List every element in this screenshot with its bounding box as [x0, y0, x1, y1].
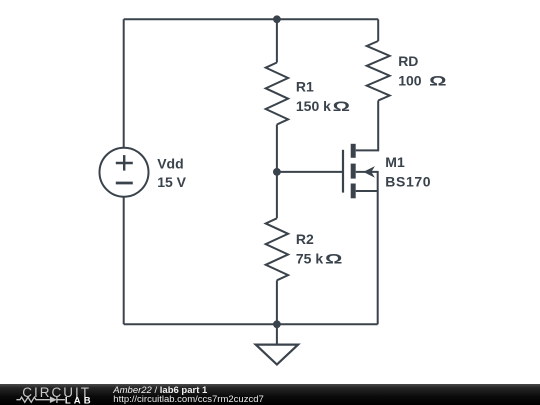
transistor M1 — [343, 144, 378, 199]
svg-text:150 k: 150 k — [296, 98, 331, 114]
svg-text:100: 100 — [398, 72, 422, 88]
label Vdd 15 V — [157, 156, 186, 190]
resistor R1 — [266, 63, 288, 125]
wire left rail upper — [123, 19, 125, 147]
wire middle column between R1 and R2 — [276, 125, 278, 219]
channel bar body — [351, 164, 356, 179]
node bottom junction — [273, 320, 281, 328]
logo diode bar and lead — [57, 396, 65, 403]
logo diode triangle — [50, 396, 57, 403]
wire source down to bottom rail — [377, 191, 379, 324]
svg-text:Vdd: Vdd — [157, 156, 183, 172]
svg-text:RD: RD — [398, 53, 418, 69]
footer bar — [0, 384, 540, 405]
label R1 150 kOhm — [296, 78, 350, 114]
voltage source Vdd — [100, 148, 149, 197]
svg-text:BS170: BS170 — [385, 173, 431, 189]
svg-text:R1: R1 — [296, 78, 314, 94]
wire left rail lower — [123, 197, 125, 325]
resistor RD — [367, 41, 390, 101]
node gate junction — [273, 168, 281, 176]
wire right rail above RD — [377, 19, 379, 41]
wire top rail — [124, 18, 379, 20]
body lead with arrow — [356, 172, 378, 191]
label RD 100 Ohm — [398, 53, 446, 88]
svg-text:75 k: 75 k — [296, 250, 323, 266]
channel bar source — [351, 184, 356, 199]
node top junction — [273, 15, 281, 23]
svg-text:R2: R2 — [296, 231, 314, 247]
svg-text:LAB: LAB — [65, 396, 94, 405]
gate line — [342, 150, 344, 193]
resistor R2 — [266, 218, 288, 280]
logo squiggle resistor — [16, 396, 65, 403]
svg-text:http://circuitlab.com/ccs7rm2c: http://circuitlab.com/ccs7rm2cuzcd7 — [113, 394, 263, 405]
label M1 BS170 — [385, 154, 431, 189]
wire bottom rail — [124, 323, 378, 325]
wire middle column below R2 — [276, 280, 278, 324]
svg-text:Ω: Ω — [429, 72, 446, 88]
wire middle column above R1 — [276, 19, 278, 62]
label R2 75 kOhm — [296, 231, 342, 266]
svg-text:Ω: Ω — [325, 250, 342, 266]
svg-text:Ω: Ω — [333, 98, 350, 114]
svg-text:M1: M1 — [385, 154, 405, 170]
svg-text:15 V: 15 V — [157, 174, 186, 190]
wire gate lead — [277, 171, 343, 173]
ground — [256, 324, 298, 364]
channel bar drain — [351, 144, 356, 158]
source lead — [356, 190, 378, 192]
wire RD to drain — [356, 101, 379, 151]
